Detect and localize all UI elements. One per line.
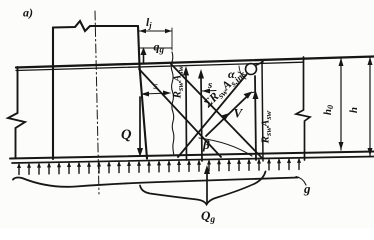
beam bottom edge lower line bbox=[12, 157, 374, 164]
beam left end edge with break symbol bbox=[8, 67, 25, 158]
soil reaction distributed load ticks bbox=[19, 159, 299, 174]
right stirrup vertical at crack end bbox=[255, 76, 256, 160]
svg-text:Qg: Qg bbox=[201, 208, 215, 225]
wall top cut line with break symbol bbox=[53, 21, 138, 31]
svg-text:s: s bbox=[153, 80, 158, 92]
load arrow q_g (up) bbox=[143, 50, 145, 63]
beta angle arc bbox=[199, 138, 252, 156]
svg-text:α: α bbox=[228, 67, 235, 81]
svg-text:lj: lj bbox=[146, 17, 152, 30]
dimension h line bbox=[369, 57, 371, 156]
pivot circle at crack top bbox=[246, 64, 257, 75]
right stirrup arrowhead tick bbox=[253, 90, 259, 99]
inclined bar diagonal D1 bbox=[139, 69, 221, 157]
svg-text:RswAsw: RswAsw bbox=[172, 65, 186, 99]
crack tip stroke to top junction bbox=[256, 62, 264, 66]
vertical crack / extension (wavy) at x=172 bbox=[171, 52, 174, 154]
brace for Q_g zone bbox=[140, 172, 266, 205]
inclined force arrow (Sum R_sw A_s,inc) bbox=[206, 94, 250, 137]
l_j right extension line bbox=[171, 28, 173, 50]
alpha leader arrow bbox=[238, 72, 245, 75]
svg-text:s: s bbox=[207, 79, 212, 91]
svg-text:h0: h0 bbox=[322, 105, 335, 115]
svg-text:Q: Q bbox=[121, 127, 132, 143]
soil pressure freehand baseline curve bbox=[13, 178, 298, 187]
beam break line right with break symbol bbox=[296, 57, 310, 160]
beam top edge inner line bbox=[16, 62, 303, 70]
alpha angle arc bbox=[239, 66, 246, 79]
svg-text:g: g bbox=[303, 181, 311, 196]
ledge line under q_g bbox=[140, 47, 172, 49]
svg-text:V: V bbox=[234, 106, 244, 121]
svg-text:h: h bbox=[348, 107, 360, 113]
beam top edge outer line bbox=[16, 57, 374, 68]
inclined bar diagonal D2 bbox=[171, 64, 262, 158]
svg-text:qg: qg bbox=[154, 40, 165, 55]
dimension l_j line with arrows bbox=[139, 30, 172, 32]
svg-text:RswAsw: RswAsw bbox=[260, 110, 274, 144]
leader to g label bbox=[296, 177, 306, 186]
dimension h0 line bbox=[340, 58, 342, 150]
vertical line at section end x=262 bbox=[262, 61, 263, 162]
stirrup spacing s dimension 1 bbox=[142, 93, 170, 94]
inclined crack line bbox=[178, 75, 247, 158]
stirrup spacing s dimension 2 bbox=[202, 90, 216, 93]
stirrup force arrow 2 bbox=[201, 77, 202, 161]
wall centerline (dash-dot) bbox=[95, 11, 99, 194]
beam bottom edge upper line (h0 level) bbox=[10, 152, 374, 159]
soil load tick arrowheads bbox=[17, 158, 301, 168]
svg-text:a): a) bbox=[23, 6, 33, 20]
shear force Q arrow (down) bbox=[139, 97, 141, 148]
wall left face line bbox=[52, 28, 54, 160]
wall right face line bbox=[138, 26, 147, 159]
resultant Q_g arrow (up) bbox=[206, 171, 208, 204]
stirrup force arrow 1 (R_sw A_sw) bbox=[185, 74, 188, 160]
